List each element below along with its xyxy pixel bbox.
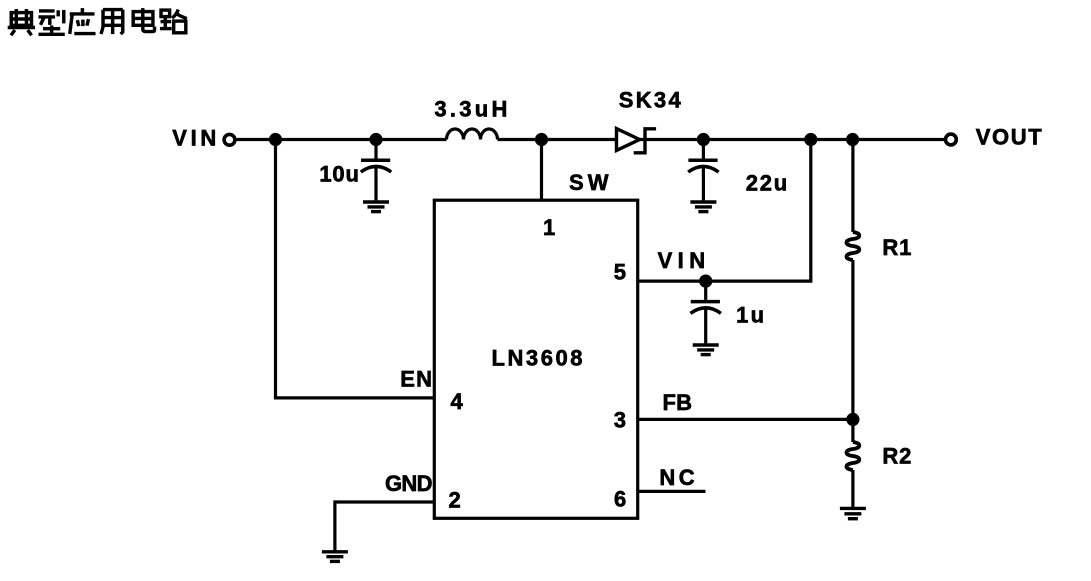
wire: FB pin 3 to divider: [638, 418, 853, 421]
ground (22u): [690, 202, 716, 212]
svg-text:R2: R2: [882, 444, 911, 469]
diode D1 SK34: [617, 129, 657, 153]
wire: GND pin 2 stub: [335, 502, 434, 551]
resistor R2: [847, 442, 860, 470]
ground (R2): [840, 508, 866, 518]
svg-text:VIN: VIN: [658, 248, 706, 273]
ground (1u): [693, 345, 719, 355]
capacitor C1 10u: [361, 140, 391, 201]
svg-text:5: 5: [614, 260, 626, 285]
svg-text:SW: SW: [569, 170, 609, 195]
svg-text:EN: EN: [400, 367, 432, 392]
svg-text:R1: R1: [882, 235, 911, 260]
svg-text:SK34: SK34: [619, 88, 682, 113]
node A: VIN junction: [269, 133, 282, 146]
capacitor C3 1u: [691, 281, 721, 343]
node C: SW junction: [535, 133, 548, 146]
node F: R1 top junction: [846, 133, 859, 146]
svg-text:VIN: VIN: [172, 126, 216, 151]
svg-text:3.3uH: 3.3uH: [434, 97, 507, 122]
svg-text:2: 2: [449, 487, 461, 512]
svg-text:VOUT: VOUT: [976, 125, 1043, 150]
inductor L1 3.3uH: [447, 129, 498, 140]
wire: inductor to diode: [498, 138, 617, 141]
wire: junction E down to pin 5 wire: [638, 140, 811, 282]
node E: VIN-pin feed junction: [804, 133, 817, 146]
char 电: [133, 8, 154, 32]
terminal VOUT (open circle): [946, 134, 957, 145]
svg-text:1u: 1u: [736, 303, 764, 328]
title 典型应用电路: [8, 8, 187, 35]
node H: FB junction: [846, 413, 859, 426]
ground (10u): [363, 202, 389, 212]
wire: FB node to R2: [851, 419, 854, 442]
wire: R2 to ground: [851, 470, 854, 508]
char 典: [8, 9, 35, 35]
svg-text:22u: 22u: [746, 170, 788, 195]
char 型: [38, 10, 64, 34]
wire: EN from VIN junction to pin 4: [276, 140, 435, 398]
svg-text:10u: 10u: [319, 162, 359, 187]
svg-text:4: 4: [451, 389, 464, 414]
node D: 22u junction: [697, 133, 710, 146]
ground (GND pin): [322, 552, 348, 562]
svg-text:NC: NC: [659, 465, 694, 490]
wire: junction F down to R1: [851, 140, 854, 233]
wire: SW junction down to pin 1: [540, 140, 543, 201]
wire: VIN terminal to inductor: [236, 138, 446, 141]
wire: NC pin 6 stub: [638, 490, 706, 493]
char 用: [101, 10, 123, 34]
svg-text:6: 6: [614, 487, 626, 512]
capacitor C2 22u: [688, 140, 718, 201]
wire: diode to VOUT terminal: [640, 138, 944, 141]
char 路: [160, 10, 187, 33]
svg-text:1: 1: [543, 215, 555, 240]
char 应: [70, 8, 96, 34]
svg-text:GND: GND: [385, 471, 433, 496]
node G: 1u junction on pin5 wire: [699, 275, 712, 288]
svg-text:3: 3: [614, 408, 626, 433]
terminal VIN (open circle): [224, 134, 235, 145]
wire: R1 to FB node: [851, 260, 854, 419]
IC U1 LN3608: [434, 200, 637, 518]
resistor R1: [847, 232, 860, 260]
svg-text:FB: FB: [663, 390, 693, 415]
node B: 10u junction: [369, 133, 382, 146]
